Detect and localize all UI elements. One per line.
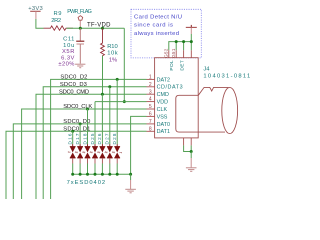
diode D28 bbox=[112, 133, 122, 174]
wire SDC0_D0 bbox=[13, 124, 146, 199]
svg-text:TF-VDD: TF-VDD bbox=[87, 23, 111, 29]
wire VDD pin4 bbox=[95, 101, 147, 103]
svg-text:6.3V: 6.3V bbox=[61, 55, 74, 61]
power +3V3 bbox=[28, 6, 42, 19]
svg-text:VDD: VDD bbox=[157, 100, 168, 106]
diode D27 bbox=[105, 133, 115, 174]
svg-text:±20%: ±20% bbox=[58, 62, 74, 68]
shield pins bottom bbox=[184, 138, 192, 146]
svg-text:1: 1 bbox=[149, 75, 152, 81]
svg-text:104031-0811: 104031-0811 bbox=[203, 74, 250, 80]
svg-text:DAT0: DAT0 bbox=[157, 122, 170, 128]
wire VSS pin6 bbox=[131, 116, 147, 174]
rail junction dots bbox=[71, 173, 74, 176]
pin 1 DAT2 bbox=[147, 75, 170, 84]
svg-text:since card is: since card is bbox=[134, 23, 173, 29]
svg-text:4: 4 bbox=[149, 97, 152, 103]
svg-text:G51: G51 bbox=[171, 48, 176, 58]
pin 3 CMD bbox=[147, 89, 169, 98]
pin 6 VSS bbox=[147, 112, 168, 121]
wire SDC0_D2 bbox=[51, 79, 147, 199]
pin 5 CLK bbox=[147, 104, 168, 113]
svg-text:SDC0_D2: SDC0_D2 bbox=[60, 75, 87, 81]
svg-text:D27: D27 bbox=[105, 133, 110, 144]
verticals from wires to ESD diodes bbox=[72, 131, 74, 144]
svg-text:3: 3 bbox=[149, 89, 152, 95]
svg-text:D25: D25 bbox=[90, 133, 95, 144]
svg-text:C11: C11 bbox=[63, 37, 74, 43]
svg-text:6: 6 bbox=[149, 112, 152, 118]
diode D26 bbox=[97, 133, 107, 174]
ground under C11 bbox=[75, 64, 85, 68]
svg-text:CD/DAT3: CD/DAT3 bbox=[157, 85, 183, 91]
svg-text:R9: R9 bbox=[54, 11, 62, 17]
svg-text:VSS: VSS bbox=[157, 114, 168, 120]
svg-text:7xESD0402: 7xESD0402 bbox=[67, 180, 106, 186]
svg-text:7: 7 bbox=[149, 119, 152, 125]
wire SDC0_CMD bbox=[36, 94, 147, 199]
junction R10 top bbox=[101, 27, 104, 30]
svg-text:SDC0_CMD: SDC0_CMD bbox=[59, 89, 89, 95]
junction PWR_FLAG/C11 bbox=[79, 27, 82, 30]
wire detect pins rail bbox=[169, 42, 192, 51]
svg-text:1%: 1% bbox=[109, 58, 117, 64]
svg-text:R10: R10 bbox=[107, 44, 118, 50]
connector J4 top pin stubs bbox=[169, 50, 192, 57]
svg-text:5: 5 bbox=[149, 104, 152, 110]
diode D18 bbox=[82, 133, 92, 174]
resistor R9 bbox=[44, 11, 74, 31]
microSD card drawing bbox=[176, 87, 238, 133]
svg-text:always inserted: always inserted bbox=[134, 31, 179, 37]
svg-text:D26: D26 bbox=[97, 133, 102, 144]
junction dots top pins bbox=[175, 40, 178, 43]
connector J4 body bbox=[155, 58, 199, 138]
pin 8 DAT1 bbox=[147, 126, 170, 135]
wire SDC0_D1 bbox=[6, 131, 147, 199]
svg-text:D16: D16 bbox=[68, 133, 73, 144]
svg-text:2R2: 2R2 bbox=[51, 18, 61, 24]
svg-text:8: 8 bbox=[149, 126, 152, 132]
wire R9 to TF-VDD corner bbox=[67, 27, 125, 29]
svg-text:POL: POL bbox=[169, 60, 175, 71]
power bar (card detect pull-up) bbox=[186, 25, 197, 34]
wire shield to ground bbox=[184, 145, 192, 151]
svg-text:CMD: CMD bbox=[157, 92, 169, 98]
pin 7 DAT0 bbox=[147, 119, 170, 128]
wire SDC0_D3 bbox=[43, 87, 146, 199]
svg-text:SDC0_D3: SDC0_D3 bbox=[60, 82, 87, 88]
ground shield bbox=[186, 168, 197, 172]
wire SDC0_CLK bbox=[22, 109, 147, 199]
svg-text:CLK: CLK bbox=[157, 107, 168, 113]
svg-text:X5R: X5R bbox=[62, 49, 74, 55]
capacitor C11 bbox=[58, 28, 84, 67]
svg-text:SDC0_D1: SDC0_D1 bbox=[63, 126, 90, 132]
svg-text:DAT1: DAT1 bbox=[157, 129, 170, 135]
svg-text:Card Detect N/U: Card Detect N/U bbox=[134, 15, 182, 21]
svg-text:DET: DET bbox=[179, 60, 185, 70]
note box: Card Detect N/U bbox=[131, 9, 201, 58]
svg-text:D17: D17 bbox=[75, 133, 80, 144]
wire R10 bottom to CMD bbox=[102, 56, 104, 94]
svg-text:PWR_FLAG: PWR_FLAG bbox=[67, 9, 92, 15]
diode D25 bbox=[90, 133, 100, 174]
svg-text:10k: 10k bbox=[107, 50, 118, 56]
wire TF-VDD down to VDD pin bbox=[123, 28, 125, 101]
diode D16 bbox=[68, 133, 78, 174]
pin 2 CD/DAT3 bbox=[147, 82, 183, 91]
diode D17 bbox=[75, 133, 85, 174]
svg-text:D18: D18 bbox=[82, 133, 87, 144]
pin 4 VDD bbox=[147, 97, 169, 106]
svg-text:DAT2: DAT2 bbox=[157, 77, 170, 83]
wire from +3V3 to R9 bbox=[36, 19, 44, 28]
resistor R10 bbox=[101, 28, 118, 63]
ESD common rail bbox=[73, 173, 131, 175]
svg-text:J4: J4 bbox=[203, 67, 210, 73]
svg-text:SDC0_D0: SDC0_D0 bbox=[63, 119, 90, 125]
svg-text:D28: D28 bbox=[112, 133, 117, 144]
PWR_FLAG bbox=[67, 9, 92, 28]
svg-text:G52: G52 bbox=[164, 48, 169, 58]
svg-text:10u: 10u bbox=[63, 43, 74, 49]
ground ESD rail bbox=[130, 174, 132, 180]
svg-text:2: 2 bbox=[149, 82, 152, 88]
junction dots on signal wires bbox=[116, 78, 119, 81]
